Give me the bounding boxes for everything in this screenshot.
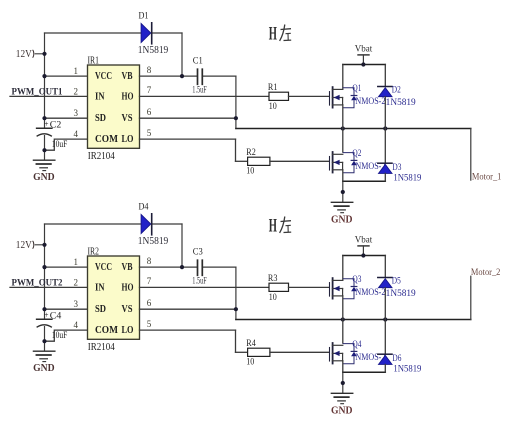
- svg-text:LO: LO: [122, 134, 134, 145]
- svg-text:IR2: IR2: [88, 247, 100, 258]
- svg-text:R1: R1: [268, 83, 278, 93]
- svg-text:7: 7: [147, 85, 152, 95]
- svg-text:Motor_2: Motor_2: [471, 267, 501, 277]
- svg-text:12V: 12V: [16, 49, 33, 60]
- svg-text:Vbat: Vbat: [355, 236, 373, 246]
- svg-text:10uF: 10uF: [52, 331, 68, 341]
- svg-text:PWM_OUT1: PWM_OUT1: [12, 86, 63, 96]
- svg-text:1N5819: 1N5819: [386, 97, 416, 107]
- svg-text:1N5819: 1N5819: [386, 288, 416, 298]
- svg-text:SD: SD: [95, 113, 106, 124]
- svg-text:Q1: Q1: [352, 84, 361, 94]
- svg-text:D2: D2: [392, 86, 401, 96]
- svg-text:10: 10: [246, 167, 254, 177]
- svg-text:COM: COM: [95, 325, 118, 336]
- svg-text:Q3: Q3: [352, 275, 361, 285]
- svg-text:SD: SD: [95, 304, 106, 315]
- svg-text:COM: COM: [95, 134, 118, 145]
- svg-text:R4: R4: [246, 339, 256, 349]
- svg-text:VB: VB: [122, 262, 133, 273]
- svg-text:IR1: IR1: [88, 56, 100, 67]
- svg-text:D1: D1: [139, 12, 149, 22]
- svg-text:GND: GND: [33, 363, 55, 374]
- svg-text:HO: HO: [122, 282, 134, 293]
- svg-text:1N5819: 1N5819: [393, 363, 421, 373]
- svg-text:GND: GND: [331, 405, 353, 416]
- svg-text:H: H: [269, 216, 277, 237]
- svg-text:IR2104: IR2104: [88, 342, 115, 353]
- svg-text:C1: C1: [193, 57, 203, 67]
- svg-text:1.5uF: 1.5uF: [192, 85, 207, 95]
- svg-text:D5: D5: [392, 277, 401, 287]
- svg-text:3: 3: [74, 299, 79, 309]
- svg-text:+: +: [44, 310, 49, 319]
- svg-text:R2: R2: [246, 148, 256, 158]
- svg-text:2: 2: [74, 86, 79, 96]
- svg-text:Q2: Q2: [352, 149, 361, 159]
- svg-text:VB: VB: [122, 71, 133, 82]
- svg-text:8: 8: [147, 256, 152, 266]
- svg-text:GND: GND: [33, 172, 55, 183]
- svg-text:7: 7: [147, 276, 152, 286]
- svg-text:4: 4: [74, 320, 79, 330]
- svg-text:3: 3: [74, 108, 79, 118]
- svg-text:1N5819: 1N5819: [393, 172, 421, 182]
- svg-text:1: 1: [74, 66, 79, 76]
- svg-text:LO: LO: [122, 325, 134, 336]
- svg-text:R3: R3: [268, 274, 278, 284]
- svg-text:1N5819: 1N5819: [138, 236, 169, 247]
- svg-text:5: 5: [147, 128, 152, 138]
- svg-text:IN: IN: [95, 282, 105, 293]
- svg-text:PWM_OUT2: PWM_OUT2: [12, 277, 63, 287]
- svg-text:10: 10: [269, 102, 277, 112]
- svg-text:VCC: VCC: [95, 71, 112, 82]
- svg-text:10: 10: [269, 293, 277, 303]
- svg-text:Q4: Q4: [352, 340, 361, 350]
- svg-text:4: 4: [74, 129, 79, 139]
- svg-text:VS: VS: [122, 113, 133, 124]
- svg-text:IN: IN: [95, 91, 105, 102]
- svg-text:+: +: [44, 119, 49, 128]
- svg-text:IR2104: IR2104: [88, 151, 115, 162]
- svg-text:NMOS-2: NMOS-2: [355, 96, 385, 106]
- svg-text:D4: D4: [139, 203, 149, 213]
- svg-text:2: 2: [74, 277, 79, 287]
- svg-text:6: 6: [147, 298, 152, 308]
- svg-text:C3: C3: [193, 248, 203, 258]
- svg-text:Vbat: Vbat: [355, 45, 373, 55]
- svg-text:H: H: [269, 24, 277, 45]
- svg-text:1: 1: [74, 257, 79, 267]
- svg-text:C4: C4: [50, 312, 62, 322]
- svg-text:5: 5: [147, 319, 152, 329]
- svg-text:GND: GND: [331, 214, 353, 225]
- svg-text:C2: C2: [50, 121, 62, 131]
- svg-text:6: 6: [147, 107, 152, 117]
- svg-text:1N5819: 1N5819: [138, 45, 169, 56]
- svg-text:1.5uF: 1.5uF: [192, 276, 207, 286]
- svg-text:10uF: 10uF: [52, 140, 68, 150]
- svg-text:VS: VS: [122, 304, 133, 315]
- svg-text:VCC: VCC: [95, 262, 112, 273]
- svg-text:Motor_1: Motor_1: [472, 171, 502, 181]
- svg-text:NMOS-2: NMOS-2: [355, 287, 385, 297]
- svg-text:10: 10: [246, 358, 254, 368]
- svg-text:HO: HO: [122, 91, 134, 102]
- svg-text:12V: 12V: [16, 240, 33, 251]
- svg-text:8: 8: [147, 65, 152, 75]
